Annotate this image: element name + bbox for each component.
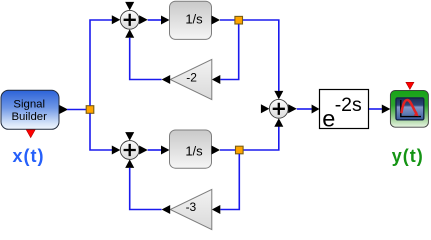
svg-text:-2: -2 [186,71,197,85]
scope block Y1 [390,90,428,127]
svg-text:-3: -3 [186,200,197,214]
integrator I2 input arrow [161,146,170,155]
S1 bottom input port arrow [125,29,134,38]
gain G2 input arrow [212,205,221,214]
integrator block I2 (1/s bottom) [170,130,212,168]
wire delay block to scope [369,108,382,110]
svg-text:Builder: Builder [11,111,47,123]
gain block G1 (-2) [170,59,212,99]
svg-text:x(t): x(t) [13,146,45,166]
S1 left input port arrow [112,15,121,24]
S3 left unconnected port arrow [261,104,270,113]
wire J2 down to gain G1 [220,24,238,79]
wire I1 to right sum (top run) [220,20,279,91]
svg-text:y(t): y(t) [392,146,424,166]
wire Signal Builder to junction [67,109,90,111]
gain block G2 (-3) [170,189,212,229]
S2 bottom input port arrow [125,159,134,168]
svg-text:1/s: 1/s [185,144,203,159]
wire junction down to bottom sum [90,114,113,151]
S1 output port arrow [139,15,148,24]
integrator I1 input arrow [161,16,170,25]
svg-text:-2s: -2s [335,94,362,116]
junction link point J1 [86,106,94,114]
gain G2 output arrow [162,205,171,214]
I1 output port arrow [212,16,221,25]
delay block D1 (e^-2s) [320,90,369,132]
S2 output port arrow [139,146,148,155]
junction link point J3 [236,146,244,154]
S3 output port arrow [288,104,297,113]
scope input arrow [382,105,391,114]
delay block input arrow [312,105,320,114]
svg-text:1/s: 1/s [185,12,203,27]
S3 top input port arrow [274,91,283,100]
wire G1 to S1 bottom [130,38,162,80]
wire junction up to top sum [90,20,113,106]
sum block S2 (bottom) [120,141,139,160]
I2 output port arrow [212,146,221,155]
svg-text:Signal: Signal [13,99,45,111]
integrator block I1 (1/s top) [170,1,212,39]
gain G1 input arrow [212,75,221,84]
wire J3 down to gain G2 [220,154,239,210]
S2 top unconnected port arrow [125,132,134,141]
S2 left input port arrow [112,146,121,155]
event marker above scope [406,82,414,89]
output port of Signal Builder [59,105,68,114]
gain G1 output arrow [162,75,171,84]
wire G2 to S2 bottom [130,168,162,210]
svg-text:e: e [322,105,335,131]
sum block S3 (right) [269,99,288,118]
wire S3 to delay block [297,108,312,110]
block X1 Signal Builder [1,90,59,129]
wire S1 to integrator I1 [148,19,161,21]
sum block S1 (top) [120,10,139,29]
S3 bottom input port arrow [274,118,283,127]
junction link point J2 [235,16,243,24]
wire I2 to right sum (bottom run) [220,127,279,151]
wire S2 to integrator I2 [148,149,161,151]
S1 top unconnected port arrow [125,2,134,11]
event marker under Signal Builder [26,130,35,138]
